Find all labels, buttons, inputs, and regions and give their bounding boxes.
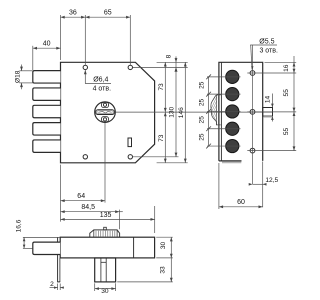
screw hole centerline vertical side view: [252, 45, 254, 184]
dimension 25 spacing column: [198, 74, 211, 148]
keyhole horizontal centerline: [116, 111, 273, 113]
svg-text:25: 25: [198, 99, 205, 107]
dimension 40 bolt protrusion: [33, 41, 61, 70]
dimension 64 bottom: [61, 165, 106, 222]
svg-text:16: 16: [283, 64, 290, 72]
faceplate side view: [220, 62, 222, 161]
dimension 146 right: [157, 62, 188, 163]
rectangular slot front view: [128, 138, 132, 147]
svg-text:146: 146: [178, 107, 185, 118]
dimension 30 body thickness right: [156, 237, 173, 258]
dimension 2 faceplate thickness: [50, 281, 64, 290]
svg-text:12,5: 12,5: [265, 177, 278, 184]
dimension 30 cylinder housing width: [95, 283, 116, 295]
lock body side view: [219, 62, 263, 162]
svg-text:3 отв.: 3 отв.: [259, 48, 278, 55]
svg-text:4 отв.: 4 отв.: [93, 85, 112, 92]
leader diameter 6.4 4 holes: [84, 70, 111, 93]
dimension 55 lower right column: [247, 128, 296, 151]
bolt circle 1 side view: [226, 70, 239, 83]
knob bump bottom view: [104, 227, 107, 230]
mounting hole 4 front view: [128, 155, 132, 159]
dimension 84.5 bottom: [61, 204, 123, 229]
keyhole vertical centerline: [104, 123, 106, 203]
dimension 73 upper right: [158, 62, 167, 163]
bolt row centerlines side view: [207, 77, 241, 146]
svg-text:30: 30: [101, 288, 109, 295]
svg-text:8: 8: [166, 54, 173, 58]
svg-text:16,6: 16,6: [15, 219, 22, 232]
mounting hole 3 front view: [83, 155, 87, 159]
mounting hole 1 front view: [83, 65, 87, 69]
lock body bottom view: [60, 237, 154, 258]
bolt 2 front view: [33, 88, 61, 100]
screw hole 1 side view: [250, 71, 255, 76]
svg-text:25: 25: [198, 116, 205, 124]
dimension 73 lower right: [158, 134, 165, 142]
svg-text:25: 25: [198, 133, 205, 141]
svg-text:14: 14: [264, 96, 271, 104]
keyhole cylinder front view: [95, 102, 116, 123]
bolt circle 3 side view: [226, 105, 239, 118]
dimension 36 and 65 top: [61, 10, 131, 65]
dimension 135 bottom: [61, 206, 155, 233]
svg-text:30: 30: [160, 242, 167, 250]
mounting hole 2 front view: [128, 65, 132, 69]
dimension 55 upper right column: [247, 89, 296, 116]
svg-text:2: 2: [50, 281, 54, 288]
dimension 8 top right: [133, 54, 188, 71]
svg-text:55: 55: [283, 89, 290, 97]
tab on side view right edge: [263, 108, 273, 117]
svg-text:64: 64: [77, 193, 85, 200]
svg-text:55: 55: [283, 128, 290, 136]
svg-text:135: 135: [100, 212, 112, 219]
dimension diameter 18 bolt: [14, 65, 33, 90]
svg-text:36: 36: [69, 10, 77, 17]
dimension 33 cylinder housing depth right: [117, 258, 173, 282]
cylinder housing bottom view: [95, 258, 116, 282]
svg-text:73: 73: [158, 134, 165, 142]
bolt 1 front view: [33, 71, 61, 83]
svg-text:65: 65: [104, 10, 112, 17]
bolt circle 4 side view: [226, 122, 239, 135]
svg-text:130: 130: [169, 106, 176, 117]
faceplate bottom view: [58, 237, 61, 282]
dimension 16 right column: [247, 56, 296, 151]
svg-text:Ø6,4: Ø6,4: [93, 76, 108, 83]
dimension 60 side view width: [219, 163, 263, 209]
screw hole 3 side view: [250, 148, 255, 153]
dimension 14 tab: [264, 94, 273, 122]
svg-text:Ø5.5: Ø5.5: [259, 38, 274, 45]
svg-text:Ø18: Ø18: [14, 70, 21, 83]
screw hole 2 side view: [250, 109, 255, 114]
bolt circle 2 side view: [226, 88, 239, 101]
dimension 12.5 bottom right side view: [249, 162, 279, 208]
svg-text:60: 60: [237, 199, 245, 206]
dimension 16.6 bottom view: [15, 219, 60, 248]
svg-text:84,5: 84,5: [81, 204, 95, 211]
bolt bottom view: [33, 242, 60, 254]
svg-text:40: 40: [43, 41, 51, 48]
dimension 130 right: [133, 67, 179, 156]
lock body front view: [61, 62, 155, 163]
bolt 5 front view: [33, 140, 61, 152]
svg-text:33: 33: [160, 266, 167, 274]
thumbturn cap bottom view: [90, 230, 120, 237]
svg-text:25: 25: [198, 81, 205, 89]
bolt 4 front view: [33, 123, 61, 135]
svg-text:73: 73: [158, 83, 165, 91]
bolt 3 front view: [33, 105, 61, 117]
leader diameter 5.5 3 holes: [250, 38, 278, 70]
bolt circle 5 side view: [226, 139, 239, 152]
cylinder profile side view: [204, 94, 243, 125]
